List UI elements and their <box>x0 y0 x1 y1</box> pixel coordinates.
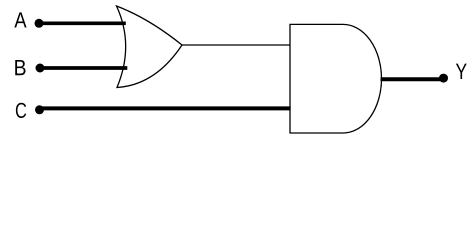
node B terminal dot <box>36 64 45 73</box>
wire C to AND gate <box>40 106 291 110</box>
AND gate U2 <box>290 24 382 133</box>
node Y terminal dot <box>439 74 448 83</box>
wire A to OR gate <box>39 21 126 25</box>
OR gate U1 <box>117 6 183 88</box>
input label A <box>14 12 26 27</box>
node A terminal dot <box>35 19 44 28</box>
node C terminal dot <box>35 105 44 114</box>
wire OR output to AND gate <box>182 44 291 46</box>
input label C <box>16 103 26 118</box>
wire B to OR gate <box>40 66 127 70</box>
input label B <box>15 60 25 75</box>
wire AND output to Y <box>381 77 445 81</box>
output label Y <box>456 64 467 79</box>
